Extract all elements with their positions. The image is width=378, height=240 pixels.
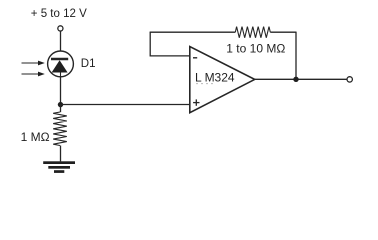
wire feedback right vertical xyxy=(295,32,297,80)
wire photodiode to node A xyxy=(60,77,62,105)
supply terminal xyxy=(58,26,63,31)
svg-text:1 to 10 MΩ: 1 to 10 MΩ xyxy=(226,41,285,55)
op-amp U1 LM324 xyxy=(190,47,255,113)
resistor R2 1 to 10 Mohm xyxy=(235,27,270,38)
wire feedback left vertical xyxy=(149,32,151,56)
wire feedback top left xyxy=(150,31,236,33)
wire feedback top right xyxy=(270,31,296,33)
ground xyxy=(43,161,75,173)
svg-text:L M324: L M324 xyxy=(195,71,235,85)
svg-text:D1: D1 xyxy=(81,58,96,70)
node B output junction xyxy=(293,77,298,82)
light arrow 2 xyxy=(22,72,45,77)
wire supply to photodiode xyxy=(60,31,62,51)
output terminal xyxy=(347,77,352,82)
svg-text:+ 5 to 12 V: + 5 to 12 V xyxy=(31,8,87,20)
wire R1 to ground xyxy=(60,146,62,162)
wire node A to op-amp + input xyxy=(61,104,190,106)
light arrow 1 xyxy=(22,61,45,66)
resistor R1 1 Mohm xyxy=(53,112,67,146)
wire op-amp output xyxy=(255,78,347,80)
photodiode D1 xyxy=(48,51,74,77)
wire node A to resistor R1 xyxy=(60,105,62,113)
wire op-amp minus input to feedback xyxy=(150,55,189,57)
node A junction xyxy=(58,102,63,107)
svg-text:1 MΩ: 1 MΩ xyxy=(21,130,50,144)
